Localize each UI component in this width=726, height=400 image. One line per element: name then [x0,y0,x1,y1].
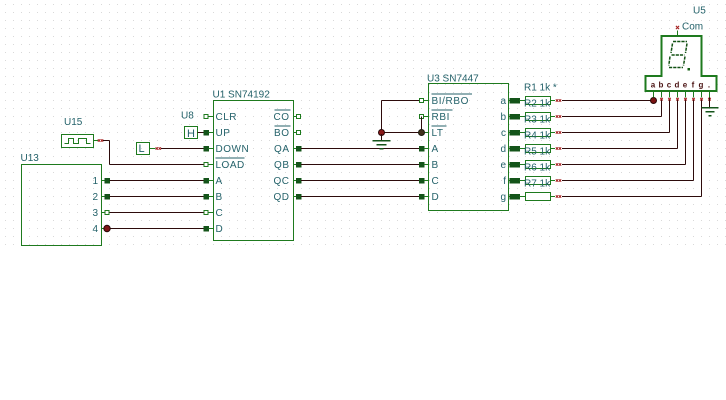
U3 pin a [500,96,514,107]
connection x marks after R6 [556,179,558,181]
U1 pin QC [274,176,302,187]
wire U13 pin 2 to U1 [110,196,204,198]
svg-text:UP: UP [216,128,231,139]
svg-text:LT: LT [432,128,444,139]
logic low source (L box) [137,143,156,156]
connection x marks on U15 output [98,139,100,141]
svg-text:QD: QD [274,192,290,203]
wire BI/RBO to node [382,100,420,102]
svg-text:2: 2 [92,192,98,203]
svg-text:f: f [692,81,695,90]
svg-text:B: B [432,160,439,171]
svg-text:b: b [659,81,664,90]
svg-text:D: D [216,224,224,235]
wire R5 to display pin e [562,100,686,165]
wire L to DOWN [161,148,204,150]
U1 pin A [204,176,223,187]
connection x marks after R2 [556,115,558,117]
svg-text:g: g [500,192,506,203]
svg-text:LOAD: LOAD [216,160,245,171]
svg-text:1: 1 [92,176,98,187]
svg-text:C: C [432,176,440,187]
U1 pin UP [204,128,231,139]
U3 pin LT [424,126,446,139]
svg-text:Com: Com [682,22,703,33]
7-segment digit 8 [669,42,687,68]
svg-text:QA: QA [274,144,289,155]
U1 pin C [204,208,223,219]
wire U1 QC to U3 [301,180,419,182]
svg-text:R6 1k: R6 1k [524,163,551,174]
svg-text:QB: QB [274,160,289,171]
decimal point of digit [688,68,691,71]
resistor R7 1k [515,193,556,201]
wire H to UP [198,132,204,134]
ground symbol at display dp [702,108,719,116]
svg-text:U3 SN7447: U3 SN7447 [427,74,479,85]
svg-text:RBI: RBI [432,112,450,123]
wire R6 to display pin f [562,100,694,181]
svg-text:U1 SN74192: U1 SN74192 [213,90,271,101]
svg-text:DOWN: DOWN [216,144,250,155]
connection x marks after R4 [556,147,558,149]
IC U3 SN7447 body [429,84,509,211]
U3 pin f [503,176,514,187]
U1 pin D [204,224,224,235]
U3 pin d [500,144,514,155]
x mark at display pin c [668,98,671,101]
connection x marks after R5 [556,163,558,165]
component U13 [22,165,102,246]
resistor R3 1k [515,129,556,137]
resistor R6 1k [515,177,556,185]
U1 pin QA [274,144,301,155]
wire RBI down to LT row [421,117,423,133]
svg-text:QC: QC [274,176,290,187]
wire U13 pin 1 to U1 [110,180,204,182]
display pins [654,92,710,98]
svg-text:BI/RBO: BI/RBO [432,96,470,107]
U3 pin g [500,192,514,203]
x mark at display pin d [676,98,679,101]
wire R4 to display pin d [562,100,678,149]
svg-text:e: e [500,160,506,171]
junction at display pin a [651,98,657,104]
svg-text:c: c [667,81,672,90]
svg-text:a: a [500,96,506,107]
svg-text:R5 1k: R5 1k [524,147,551,158]
svg-text:C: C [216,208,224,219]
svg-text:B: B [216,192,223,203]
svg-text:U15: U15 [64,117,83,128]
wire R3 to display pin c [562,100,670,133]
x mark at display pin b [660,98,663,101]
svg-text:L: L [139,143,145,155]
x mark at Com pin [676,26,679,29]
x mark at display dp pin [708,98,711,101]
U1 pin B [204,192,223,203]
x mark at display pin e [684,98,687,101]
svg-text:R2 1k: R2 1k [524,99,551,110]
Com pin stub [677,31,679,36]
connection x marks on L output [156,147,158,149]
wire U13 pin 3 to U1 [110,212,204,214]
junction at LT pin [419,130,425,136]
svg-text:d: d [675,81,680,90]
U13 pin 4 [92,224,104,235]
U3 pin c [501,128,515,139]
U13 pin 1 [92,176,109,187]
svg-text:R4 1k: R4 1k [524,131,551,142]
U1 pin BO [274,126,300,139]
U13 pin 3 [92,208,109,219]
svg-text:H: H [187,128,195,140]
U3 pin b [500,112,514,123]
svg-text:A: A [216,176,223,187]
U13 pin 2 [92,192,109,203]
wire U13 pin 4 to U1 [110,228,204,230]
resistor R1 1k [515,97,556,105]
svg-text:CO: CO [274,112,290,123]
wire R7 to display pin g [562,100,702,197]
U3 pin D [419,192,439,203]
x mark at display pin f [692,98,695,101]
junction at ground node [379,130,385,136]
junction on U13 pin 4 [104,225,110,231]
7-segment display U5 outline [646,36,717,91]
x mark at display pin g [700,98,703,101]
U3 pin e [500,160,514,171]
ground symbol near U3 LT [373,134,391,149]
wire U1 QD to U3 [301,196,419,198]
connection x marks after R7 [556,195,558,197]
svg-text:R1 1k *: R1 1k * [524,83,557,94]
svg-text:U5: U5 [693,6,706,17]
connection x marks after R1 [556,99,558,101]
svg-text:R7 1k: R7 1k [524,179,551,190]
svg-text:BO: BO [274,128,289,139]
resistor R2 1k [515,113,556,121]
U3 pin RBI [420,110,453,123]
U1 pin QB [274,160,301,171]
svg-text:A: A [432,144,439,155]
wire R2 to display pin b [562,100,662,117]
svg-text:e: e [683,81,688,90]
wire R1 to display pin a [562,100,654,102]
svg-text:CLR: CLR [216,112,238,123]
svg-text:d: d [500,144,506,155]
U3 pin BI/RBO [420,94,472,107]
svg-text:c: c [501,128,506,139]
svg-text:U13: U13 [21,153,40,164]
U1 pin QD [274,192,302,203]
U3 pin C [419,176,439,187]
U1 pin CO [274,110,301,123]
svg-text:b: b [500,112,506,123]
U1 pin LOAD [204,158,245,171]
display segment letters a b c d e f g . [651,81,710,90]
svg-text:D: D [432,192,440,203]
U1 pin CLR [204,112,237,123]
connection x marks after R3 [556,131,558,133]
svg-text:U8: U8 [181,111,194,122]
wire dp pin down to ground [709,98,711,108]
resistor R4 1k [515,145,556,153]
svg-text:f: f [503,176,506,187]
U3 pin B [419,160,439,171]
svg-text:3: 3 [92,208,98,219]
svg-text:a: a [651,81,656,90]
clock source U15 [62,135,99,148]
svg-text:g: g [699,81,704,90]
IC U1 SN74192 body [214,101,294,241]
U1 pin DOWN [204,144,250,155]
svg-text:R3 1k: R3 1k [524,115,551,126]
svg-text:4: 4 [92,224,98,235]
wire node to LT [382,132,420,134]
U3 pin A [419,144,439,155]
resistor R5 1k [515,161,556,169]
wire vertical BI/RBO node down to LT row [381,101,383,133]
logic high source U8 (H box) [185,127,198,141]
wire U1 QA to U3 [301,148,419,150]
wire U1 QB to U3 [301,164,419,166]
wire U15 output to LOAD [103,141,204,165]
svg-text:.: . [708,81,710,90]
